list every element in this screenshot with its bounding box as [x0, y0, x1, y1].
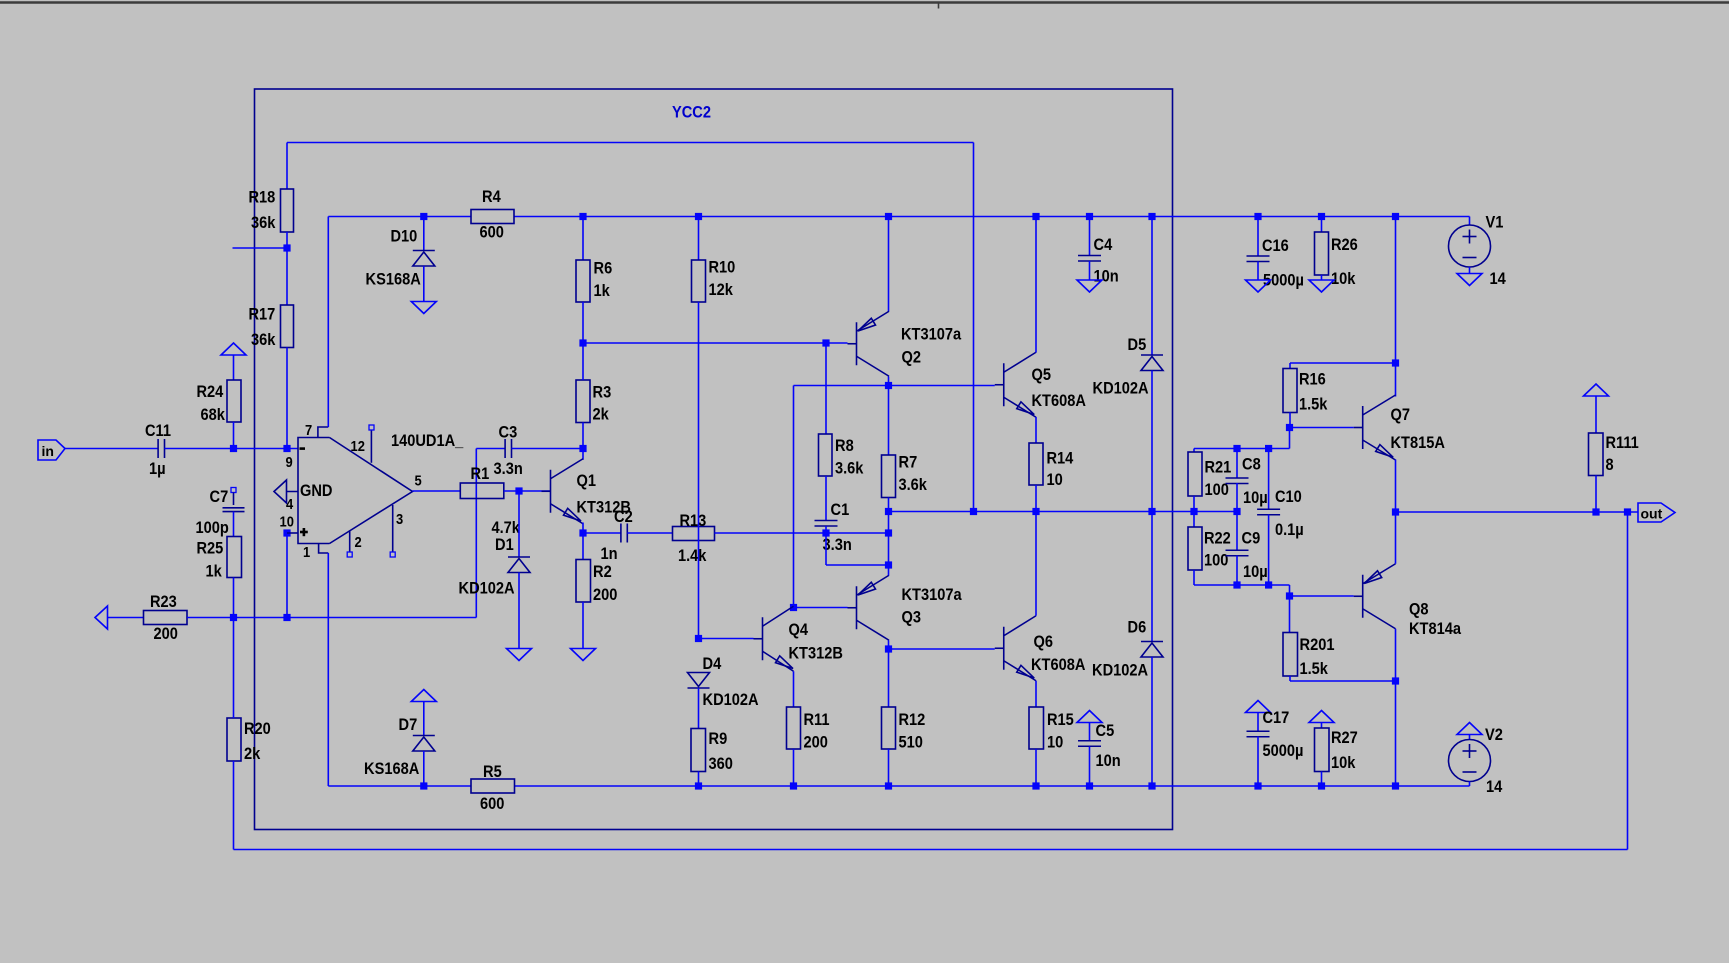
node Q3 base [790, 604, 797, 611]
svg-text:3: 3 [396, 511, 403, 528]
wire cluster bottom [1193, 570, 1195, 585]
wire D1 to ground [518, 573, 520, 649]
resistor R27 [1315, 728, 1330, 772]
wire Q2 base row [583, 342, 848, 344]
svg-text:1k: 1k [206, 562, 223, 581]
svg-text:C4: C4 [1094, 235, 1113, 254]
resistor R17 [281, 305, 294, 348]
svg-text:R201: R201 [1300, 635, 1335, 654]
svg-text:R17: R17 [249, 305, 276, 324]
transistor Q3 [856, 586, 858, 629]
node out loop [1624, 508, 1631, 515]
svg-text:100: 100 [1204, 551, 1228, 570]
svg-text:1.5k: 1.5k [1299, 395, 1328, 414]
wire R9 to bottom rail [698, 772, 700, 787]
wire C4 to ground [1089, 261, 1091, 280]
node R1 output [515, 487, 522, 494]
wire R3 to collector node [582, 423, 584, 449]
resistor R6 [576, 260, 590, 302]
svg-text:2k: 2k [244, 744, 261, 763]
svg-text:D5: D5 [1128, 335, 1147, 354]
wire Q3 base lead [794, 607, 848, 609]
wire rail to D5 [1151, 217, 1153, 356]
svg-text:2k: 2k [593, 405, 610, 424]
resistor R8 [819, 434, 833, 476]
svg-text:D7: D7 [399, 715, 418, 734]
node Q2 collector [885, 382, 892, 389]
node C17 bottom [1254, 782, 1261, 789]
wire stub at node [233, 247, 288, 249]
wire C5 to bottom rail [1089, 747, 1091, 787]
wire Q3 collector to R12 [888, 640, 890, 707]
svg-text:0.1µ: 0.1µ [1275, 520, 1304, 539]
diode D4 [688, 673, 710, 687]
svg-text:R9: R9 [709, 729, 728, 748]
wire V2 to rail [1469, 782, 1471, 787]
resistor R3 [576, 380, 590, 423]
wire Q8 base lead [1290, 595, 1354, 597]
svg-text:3.6k: 3.6k [835, 459, 864, 478]
resistor R201 [1283, 633, 1298, 677]
wire R17 to minus input [286, 348, 288, 449]
svg-text:C11: C11 [145, 421, 171, 440]
svg-text:R3: R3 [593, 383, 612, 402]
svg-text:D4: D4 [703, 654, 722, 673]
svg-text:R12: R12 [899, 710, 926, 729]
wire D6 to bottom rail [1151, 657, 1153, 786]
wire Q5 base row [794, 385, 995, 387]
wire plus pin lead [287, 532, 298, 534]
node R10 top [695, 213, 702, 220]
svg-text:1: 1 [303, 544, 310, 561]
wire R12 to bottom rail [888, 749, 890, 786]
wire Q8 collector down [1395, 629, 1397, 786]
node Q2 base tap [822, 339, 829, 346]
wire R7 to bias rail [888, 498, 890, 566]
node Q1 collector [579, 445, 586, 452]
resistor R11 [787, 707, 801, 749]
svg-text:Q7: Q7 [1391, 405, 1411, 424]
node Q6 base tap [885, 645, 892, 652]
wire bottom rail [328, 785, 471, 787]
node Q8 collector R201 [1392, 677, 1399, 684]
svg-text:Q5: Q5 [1032, 365, 1052, 384]
node plus input [283, 529, 290, 536]
svg-text:KS168A: KS168A [366, 270, 421, 289]
wire R26 to ground [1321, 275, 1323, 280]
ground C4 [1077, 280, 1102, 292]
op-amp pin7 jog [318, 427, 328, 438]
svg-text:4: 4 [286, 496, 294, 513]
svg-text:C3: C3 [499, 423, 518, 442]
capacitor C10 [1268, 449, 1270, 510]
node Q8 base [1286, 592, 1293, 599]
wire right side up to out [1627, 512, 1629, 850]
svg-text:C5: C5 [1096, 721, 1115, 740]
svg-text:YCC2: YCC2 [672, 103, 711, 122]
resistor R26 [1315, 232, 1329, 275]
wire pin1 down [327, 553, 329, 786]
arrow feedback left [95, 606, 108, 629]
node D7 tap [420, 782, 427, 789]
wire rail corner to V1 [1469, 217, 1471, 226]
svg-text:KT814a: KT814a [1409, 619, 1461, 638]
resistor R111 [1589, 433, 1604, 476]
node C5 bottom [1086, 782, 1093, 789]
node C10 top [1265, 445, 1272, 452]
svg-text:KT815A: KT815A [1391, 433, 1445, 452]
wire Q6 collector up [1035, 512, 1037, 616]
wire collector jog [582, 449, 584, 460]
wire Q7 collector col [1395, 217, 1397, 397]
power arrow R24 [221, 343, 246, 355]
ground D10 [411, 302, 436, 314]
port in [38, 440, 65, 460]
svg-text:GND: GND [300, 481, 333, 500]
svg-text:R4: R4 [482, 187, 501, 206]
svg-text:R10: R10 [709, 258, 736, 277]
node Q5 collector rail [1032, 213, 1039, 220]
wire arrow to C5 [1089, 723, 1091, 741]
node R18/R17 junction [283, 244, 290, 251]
wire feedback up to C3 [475, 449, 477, 618]
op-amp plus mark [300, 531, 308, 534]
svg-text:R111: R111 [1606, 433, 1639, 452]
resistor R20 [227, 718, 241, 761]
wire Q4 emitter to R11 [793, 671, 795, 707]
node Q8 collector bottom [1392, 782, 1399, 789]
svg-text:C8: C8 [1242, 455, 1261, 474]
ground D1 [507, 649, 532, 661]
transistor Q1 [550, 470, 552, 513]
ground V1 [1457, 274, 1482, 286]
svg-text:R1: R1 [471, 464, 490, 483]
svg-text:in: in [42, 443, 54, 459]
svg-text:10: 10 [1047, 470, 1063, 489]
net box YCC2 outline [255, 89, 1173, 830]
wire Q3 emitter up [888, 565, 890, 575]
svg-text:V1: V1 [1486, 213, 1504, 232]
svg-text:R7: R7 [899, 453, 918, 472]
resistor R2 [576, 560, 591, 603]
svg-text:Q1: Q1 [577, 471, 597, 490]
node R111 bottom [1592, 508, 1599, 515]
wire R111 to rail [1595, 476, 1597, 513]
wire R18-R17 [286, 232, 288, 305]
wire C3 right [512, 448, 584, 450]
svg-text:14: 14 [1486, 777, 1503, 796]
wire D10 to ground [423, 266, 425, 302]
wire R16 to base node [1289, 413, 1291, 428]
svg-text:D6: D6 [1128, 618, 1147, 637]
node V+ R6 [579, 213, 586, 220]
svg-text:KD102A: KD102A [1092, 661, 1148, 680]
svg-text:36k: 36k [251, 330, 276, 349]
wire Q5 emitter to R14 [1035, 417, 1037, 443]
resistor R25 [227, 537, 242, 578]
svg-text:Q6: Q6 [1034, 632, 1054, 651]
node Q1 emitter [579, 529, 586, 536]
svg-text:5: 5 [415, 473, 422, 490]
node Q7 base [1286, 424, 1293, 431]
wire D10 lead [423, 217, 425, 251]
wire in to C11 [65, 448, 158, 450]
svg-text:R21: R21 [1205, 458, 1232, 477]
node R3 top [579, 339, 586, 346]
svg-text:C7: C7 [210, 487, 229, 506]
wire node to C2 [583, 532, 621, 534]
power arrow R27 [1309, 711, 1334, 723]
resistor R24 [227, 380, 241, 422]
svg-text:C17: C17 [1263, 708, 1290, 727]
diode D7 [413, 735, 435, 737]
resistor R1 [460, 483, 504, 499]
svg-text:KD102A: KD102A [459, 579, 515, 598]
node R24 bottom [230, 445, 237, 452]
diode D10 [413, 250, 435, 252]
wire R11 to bottom rail [793, 749, 795, 786]
wire R1 to node [504, 490, 551, 492]
diode D6 [1141, 641, 1163, 643]
svg-text:1n: 1n [601, 544, 618, 563]
capacitor C1 [815, 520, 838, 522]
wire rail to C4 [1089, 217, 1091, 256]
svg-text:10k: 10k [1331, 753, 1356, 772]
source V2 [1449, 740, 1491, 782]
resistor R23 [144, 611, 188, 625]
wire R13 to C1 node [715, 532, 889, 534]
wire C11 to minus pin [165, 448, 298, 450]
svg-text:KS168A: KS168A [364, 759, 419, 778]
node out rail start [1392, 508, 1399, 515]
svg-text:Q2: Q2 [902, 348, 922, 367]
transistor Q2 [856, 322, 858, 365]
svg-text:R24: R24 [197, 382, 224, 401]
wire C1 bottom jog [825, 526, 827, 565]
resistor R21 [1188, 452, 1202, 496]
node R11 bottom [790, 782, 797, 789]
wire R24 to node [233, 422, 235, 449]
wire rail to R6 [582, 217, 584, 261]
resistor R12 [882, 707, 896, 749]
capacitor C9 [1236, 512, 1238, 551]
wire base node to R201 [1289, 596, 1291, 633]
wire D5 to bias rail [1151, 371, 1153, 512]
svg-text:10n: 10n [1094, 267, 1119, 286]
svg-text:510: 510 [899, 733, 923, 752]
wire pin5 to R1 [413, 490, 461, 492]
wire R2 to ground [582, 602, 584, 649]
svg-text:1.4k: 1.4k [678, 546, 707, 565]
source V1 [1449, 225, 1491, 267]
power arrow C17 [1246, 701, 1271, 713]
wire pin7 supply [327, 217, 329, 428]
wire base node to cluster [1289, 428, 1291, 449]
svg-text:140UD1A_: 140UD1A_ [391, 431, 464, 450]
power arrow D7 [411, 690, 436, 702]
wire R27 to rail [1321, 772, 1323, 787]
wire inner net top [287, 142, 974, 144]
svg-text:10µ: 10µ [1243, 488, 1268, 507]
wire Q6 emitter to R15 [1035, 681, 1037, 707]
node C4 tap [1086, 213, 1093, 220]
wire rail to Q2 emitter [888, 217, 890, 312]
svg-text:3.6k: 3.6k [899, 475, 928, 494]
op-amp pin1 jog [319, 544, 329, 554]
resistor R5 [471, 779, 515, 793]
wire bias rail [889, 511, 1238, 513]
svg-text:KD102A: KD102A [703, 690, 759, 709]
wire Q3Q4 collector drop [793, 386, 795, 608]
node plus feedback [283, 614, 290, 621]
ground C16 [1246, 280, 1271, 292]
wire C2 to R13 [627, 532, 672, 534]
svg-text:Q8: Q8 [1409, 600, 1429, 619]
capacitor C17 [1247, 730, 1270, 732]
wire arrow to V2 [1469, 735, 1471, 740]
svg-text:KT3107a: KT3107a [902, 585, 963, 604]
wire arrow to R23 [108, 617, 144, 619]
node D5 rail [1148, 213, 1155, 220]
svg-text:R23: R23 [150, 592, 177, 611]
capacitor C16 [1247, 255, 1270, 257]
wire R201 to collector [1289, 676, 1291, 681]
wire Q4 base lead [699, 638, 754, 640]
node R9 bottom [695, 782, 702, 789]
power arrow C5 [1077, 711, 1102, 723]
node C1 jog [885, 561, 892, 568]
svg-text:R14: R14 [1047, 449, 1074, 468]
node bias C8 [1233, 508, 1240, 515]
svg-text:12k: 12k [709, 280, 734, 299]
svg-text:3.3n: 3.3n [494, 459, 523, 478]
wire C3 left [476, 448, 505, 450]
wire R18 top [286, 143, 288, 190]
node C1 bottom [822, 529, 829, 536]
wire node to R2 [582, 533, 584, 560]
wire plus input down [286, 533, 288, 618]
capacitor C11 [157, 439, 159, 458]
svg-text:R25: R25 [197, 539, 224, 558]
wire Q8 emitter up [1395, 512, 1397, 564]
transistor Q6 [1003, 627, 1005, 670]
svg-text:14: 14 [1490, 269, 1507, 288]
resistor R10 [692, 260, 706, 302]
transistor Q8 [1362, 575, 1364, 618]
wire rail to Q5 collector [1035, 217, 1037, 353]
wire C17 to rail [1257, 737, 1259, 787]
wire C16 to ground [1257, 262, 1259, 281]
node R27 bottom [1318, 782, 1325, 789]
svg-text:200: 200 [593, 585, 617, 604]
svg-text:D1: D1 [495, 535, 514, 554]
svg-text:KD102A: KD102A [1093, 379, 1149, 398]
resistor R4 [471, 210, 514, 224]
svg-text:C2: C2 [614, 507, 633, 526]
transistor Q4 [762, 617, 764, 660]
node minus input [283, 445, 290, 452]
wire R6 to node [582, 302, 584, 343]
svg-text:R22: R22 [1204, 529, 1231, 548]
wire Q6 base row [889, 648, 995, 650]
svg-text:R27: R27 [1331, 728, 1358, 747]
svg-text:D10: D10 [391, 227, 418, 246]
svg-text:68k: 68k [201, 405, 226, 424]
ground R2 [571, 649, 596, 661]
wire R10 down to Q4 base node [698, 302, 700, 639]
wire rail to C16 [1257, 217, 1259, 257]
wire node to R8 [825, 343, 827, 434]
capacitor C8 [1236, 449, 1238, 479]
node Q4 base [695, 635, 702, 642]
wire arrow to R24 [233, 355, 235, 380]
svg-text:out: out [1641, 506, 1663, 522]
wire Q2col to R7 [888, 386, 890, 456]
svg-text:R8: R8 [835, 436, 854, 455]
wire bias rail to D6 [1151, 512, 1153, 642]
svg-text:10: 10 [280, 514, 294, 531]
node bias x973 [970, 508, 977, 515]
svg-text:10n: 10n [1096, 751, 1121, 770]
node C9 bottom [1233, 581, 1240, 588]
capacitor C2 [620, 524, 622, 543]
svg-text:C1: C1 [831, 500, 850, 519]
node R16 tap [1392, 359, 1399, 366]
capacitor C7 pin marker [231, 488, 236, 493]
resistor R7 [882, 455, 896, 498]
wire Q7 base lead [1290, 427, 1354, 429]
resistor R14 [1029, 443, 1043, 485]
op-amp U1 body [298, 438, 413, 544]
transistor Q5 [1003, 363, 1005, 406]
resistor R16 [1283, 369, 1297, 413]
wire node to R3 [582, 343, 584, 380]
svg-text:R18: R18 [249, 188, 276, 207]
svg-text:Q4: Q4 [789, 620, 809, 639]
svg-text:1µ: 1µ [149, 459, 166, 478]
resistor R9 [691, 729, 706, 772]
svg-text:600: 600 [480, 794, 504, 813]
wire R25 to feedback node [233, 578, 235, 618]
wire arrow to D7 [423, 702, 425, 736]
node R26 tap [1318, 213, 1325, 220]
wire node to D1 [518, 491, 520, 557]
svg-text:3.3n: 3.3n [823, 535, 852, 554]
svg-text:R16: R16 [1299, 370, 1326, 389]
svg-text:100: 100 [1205, 480, 1229, 499]
svg-text:KT608A: KT608A [1031, 655, 1085, 674]
svg-text:KT3107a: KT3107a [901, 325, 962, 344]
op-amp pin12 stub [370, 430, 372, 463]
transistor Q7 [1362, 406, 1364, 449]
svg-text:10µ: 10µ [1243, 562, 1268, 581]
top border line [0, 1, 1729, 3]
wire C7 to R25 [233, 512, 235, 537]
resistor R13 [673, 527, 715, 541]
node R15 bottom [1032, 782, 1039, 789]
svg-text:2: 2 [355, 534, 362, 551]
wire V1 to ground [1469, 267, 1471, 274]
wire rail to R26 [1321, 217, 1323, 233]
wire rail to R10 [698, 217, 700, 261]
svg-text:12: 12 [351, 438, 365, 455]
svg-text:R6: R6 [594, 259, 613, 278]
svg-text:C16: C16 [1262, 236, 1289, 255]
wire C7 stub [233, 493, 235, 506]
svg-text:9: 9 [286, 454, 293, 471]
wire node to R20 [233, 618, 235, 719]
wire R21 bottom [1193, 496, 1195, 527]
